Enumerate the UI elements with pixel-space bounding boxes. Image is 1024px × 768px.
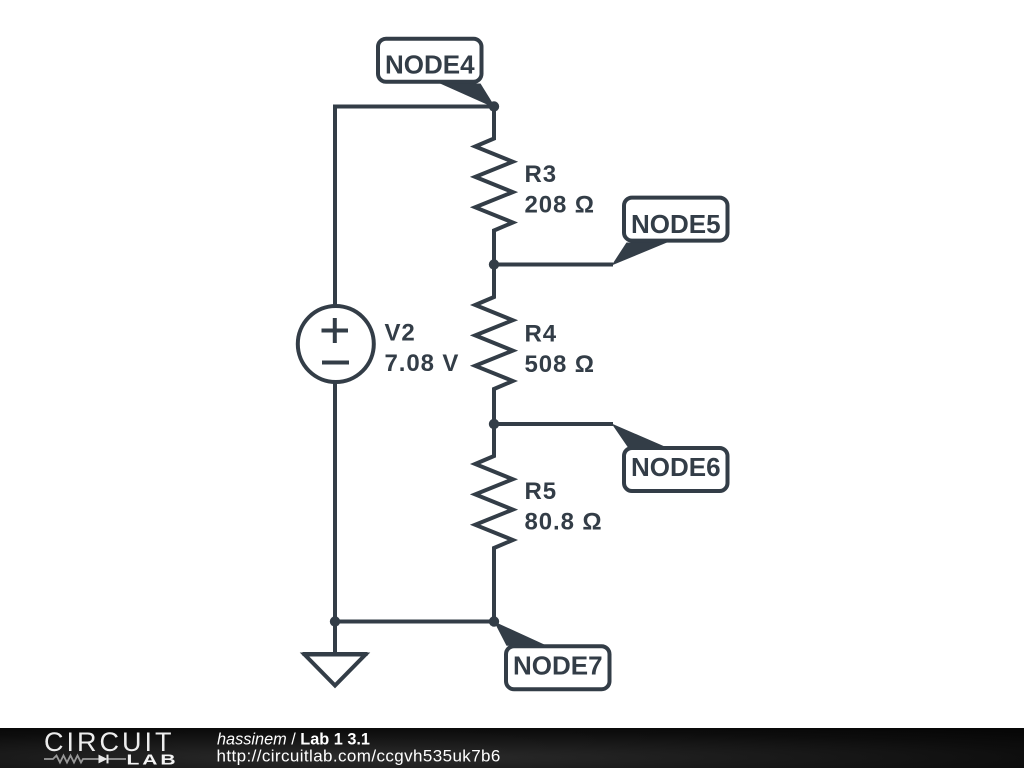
svg-text:NODE5: NODE5	[631, 209, 721, 239]
svg-text:R4: R4	[525, 320, 557, 347]
svg-text:NODE4: NODE4	[385, 50, 475, 80]
svg-text:http://circuitlab.com/ccgvh535: http://circuitlab.com/ccgvh535uk7b6	[217, 746, 501, 765]
svg-text:R5: R5	[525, 478, 557, 505]
svg-text:80.8 Ω: 80.8 Ω	[525, 509, 603, 536]
svg-text:NODE6: NODE6	[631, 452, 721, 482]
svg-text:208 Ω: 208 Ω	[525, 191, 595, 218]
svg-text:NODE7: NODE7	[513, 651, 603, 681]
svg-text:V2: V2	[385, 319, 416, 346]
svg-text:508 Ω: 508 Ω	[525, 351, 595, 378]
svg-text:LAB: LAB	[127, 752, 179, 768]
svg-text:R3: R3	[525, 161, 557, 188]
svg-text:7.08 V: 7.08 V	[385, 350, 460, 377]
